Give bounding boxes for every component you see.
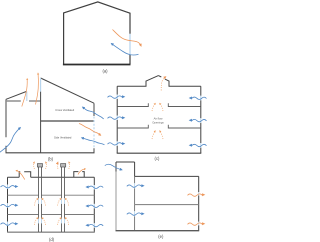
svg-text:Openings: Openings [152, 120, 164, 124]
svg-text:Cross Ventilated: Cross Ventilated [55, 108, 74, 112]
svg-text:(a): (a) [102, 69, 108, 74]
svg-text:(c): (c) [155, 156, 160, 161]
svg-text:Air flow: Air flow [154, 117, 163, 121]
svg-text:Side Ventilated: Side Ventilated [54, 136, 72, 140]
svg-text:(d): (d) [49, 237, 55, 242]
svg-text:(b): (b) [48, 157, 54, 162]
svg-text:(e): (e) [158, 234, 164, 239]
